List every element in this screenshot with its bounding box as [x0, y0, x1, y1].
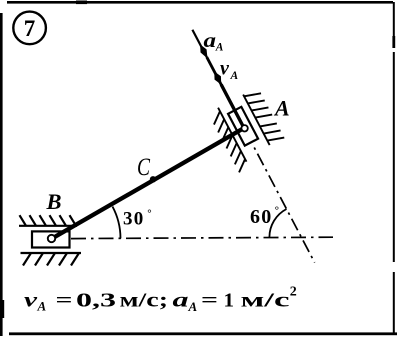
svg-text:=: = [56, 290, 73, 312]
svg-text:v: v [220, 58, 230, 80]
svg-text:м/с: м/с [241, 290, 290, 312]
svg-text:°: ° [275, 205, 279, 217]
svg-text:A: A [230, 70, 239, 82]
svg-text:A: A [37, 299, 47, 314]
svg-text:1: 1 [224, 290, 235, 312]
svg-text:a: a [204, 30, 217, 52]
svg-text:A: A [188, 299, 198, 314]
svg-text:B: B [46, 189, 62, 214]
svg-text:A: A [273, 96, 290, 121]
svg-text:A: A [215, 42, 224, 54]
svg-text:C: C [137, 154, 150, 181]
svg-text:м/с;: м/с; [120, 290, 169, 312]
svg-text:2: 2 [290, 285, 297, 300]
svg-text:30: 30 [123, 208, 144, 229]
svg-text:v: v [24, 290, 39, 312]
svg-text:a: a [173, 290, 189, 312]
svg-text:7: 7 [24, 16, 36, 41]
svg-text:0,3: 0,3 [76, 290, 116, 312]
svg-text:60: 60 [250, 206, 272, 228]
svg-text:°: ° [147, 208, 151, 220]
svg-text:=: = [201, 290, 218, 312]
